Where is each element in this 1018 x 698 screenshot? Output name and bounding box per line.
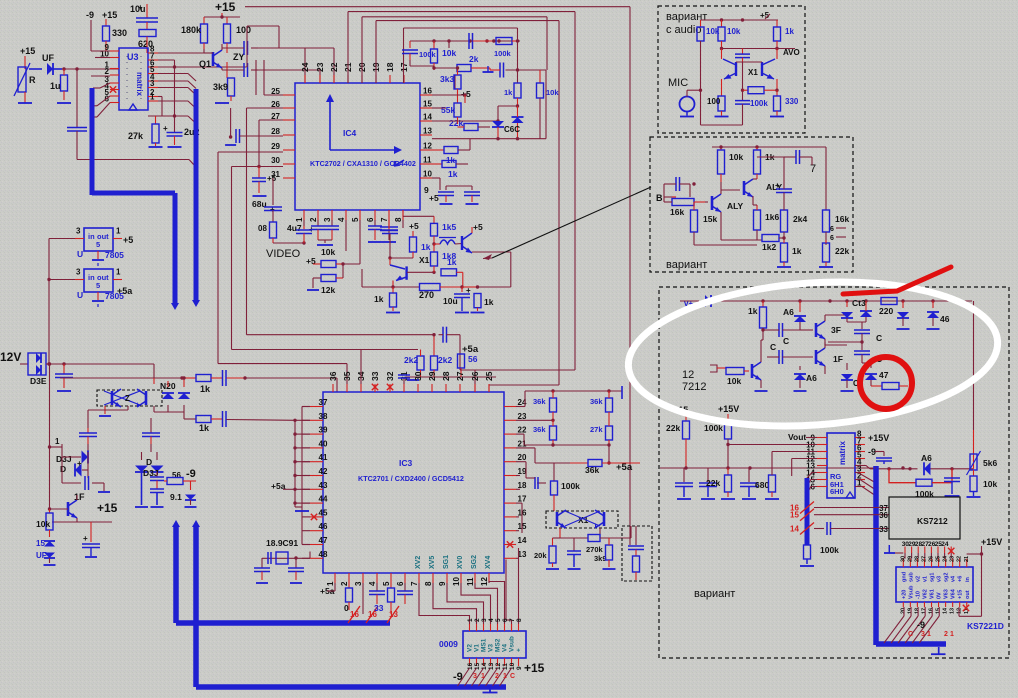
svg-text:7: 7 (810, 163, 816, 175)
svg-text:1u: 1u (50, 81, 61, 91)
svg-text:25: 25 (936, 556, 942, 562)
svg-text:33: 33 (370, 371, 380, 381)
svg-text:5: 5 (382, 581, 391, 586)
svg-text:Vout: Vout (788, 432, 806, 442)
svg-text:1: 1 (927, 631, 931, 638)
svg-text:XV2: XV2 (415, 556, 422, 569)
svg-text:MS2: MS2 (495, 638, 502, 652)
svg-text:20k: 20k (534, 551, 547, 560)
svg-text:XV5: XV5 (429, 556, 436, 569)
svg-text:+15: +15 (524, 661, 545, 675)
svg-text:1k: 1k (792, 246, 802, 256)
svg-text:3: 3 (76, 227, 81, 236)
svg-text:MIC: MIC (668, 77, 688, 89)
svg-text:1k6: 1k6 (765, 212, 779, 222)
svg-text:вариант: вариант (694, 588, 735, 600)
svg-text:23: 23 (315, 62, 325, 72)
svg-text:23: 23 (518, 412, 527, 421)
svg-text:47: 47 (319, 536, 328, 545)
svg-text:2: 2 (309, 217, 318, 222)
svg-text:23: 23 (950, 556, 956, 562)
svg-text:10k: 10k (729, 152, 743, 162)
svg-text:KS7221D: KS7221D (967, 621, 1004, 631)
svg-text:36k: 36k (585, 465, 599, 475)
svg-text:41: 41 (319, 453, 328, 462)
svg-text:D3E: D3E (30, 376, 47, 386)
svg-text:1F: 1F (74, 492, 85, 502)
svg-text:10k: 10k (321, 247, 335, 257)
svg-text:вариант: вариант (666, 259, 707, 271)
svg-text:08: 08 (258, 224, 267, 233)
svg-text:D: D (60, 464, 66, 474)
svg-text:вариант: вариант (666, 11, 707, 23)
svg-text:24: 24 (943, 555, 949, 562)
svg-text:11: 11 (502, 663, 509, 670)
svg-text:46: 46 (940, 314, 950, 324)
svg-text:XV0: XV0 (457, 556, 464, 569)
svg-text:29: 29 (427, 371, 437, 381)
svg-text:38: 38 (319, 412, 328, 421)
svg-text:22: 22 (329, 62, 339, 72)
svg-text:270k: 270k (586, 545, 604, 554)
svg-text:32: 32 (385, 371, 395, 381)
svg-text:100k: 100k (494, 49, 512, 58)
svg-text:5: 5 (96, 240, 100, 249)
svg-text:100k: 100k (820, 545, 839, 555)
svg-text:9.1: 9.1 (170, 492, 182, 502)
svg-text:10k: 10k (727, 376, 741, 386)
svg-text:21: 21 (964, 556, 970, 562)
svg-text:35: 35 (342, 371, 352, 381)
svg-text:+5: +5 (429, 193, 439, 203)
svg-text:-9: -9 (917, 620, 925, 630)
svg-text:10k: 10k (36, 519, 50, 529)
svg-text:16: 16 (423, 87, 432, 96)
svg-text:8: 8 (394, 217, 403, 222)
svg-text:V2: V2 (467, 644, 474, 652)
svg-text:+5: +5 (123, 235, 133, 245)
svg-text:1k: 1k (421, 242, 431, 252)
svg-text:V61: V61 (930, 589, 936, 599)
svg-text:7: 7 (509, 618, 516, 622)
svg-text:1: 1 (481, 673, 485, 680)
svg-text:C: C (908, 631, 913, 638)
svg-text:33: 33 (374, 603, 384, 613)
svg-text:15: 15 (423, 100, 432, 109)
svg-text:45: 45 (319, 508, 328, 517)
svg-text:40: 40 (319, 439, 328, 448)
svg-text:+15V: +15V (868, 433, 889, 443)
svg-text:3: 3 (76, 268, 81, 277)
svg-text:28: 28 (441, 371, 451, 381)
svg-text:10: 10 (423, 170, 432, 179)
svg-text:A6: A6 (921, 453, 932, 463)
svg-text:KTC2701 / CXD2400 / GCD5412: KTC2701 / CXD2400 / GCD5412 (358, 474, 464, 483)
svg-text:30: 30 (413, 371, 423, 381)
svg-text:IC4: IC4 (343, 128, 357, 138)
svg-text:220: 220 (879, 306, 893, 316)
svg-text:22: 22 (518, 426, 527, 435)
svg-text:15: 15 (790, 511, 799, 520)
svg-text:22k: 22k (666, 423, 680, 433)
svg-text:5k6: 5k6 (983, 458, 997, 468)
svg-text:MS1: MS1 (481, 638, 488, 652)
svg-text:26: 26 (271, 100, 280, 109)
svg-text:+20: +20 (901, 590, 907, 599)
svg-text:5: 5 (96, 281, 100, 290)
svg-text:12: 12 (495, 662, 502, 670)
svg-text:7805: 7805 (105, 250, 124, 260)
svg-text:6H0: 6H0 (830, 487, 844, 496)
svg-text:27: 27 (455, 371, 465, 381)
svg-text:6: 6 (366, 217, 375, 222)
svg-text:15: 15 (36, 539, 45, 548)
svg-text:56: 56 (172, 471, 181, 480)
svg-text:sg2: sg2 (944, 573, 950, 582)
svg-text:33: 33 (879, 525, 888, 534)
svg-text:1: 1 (116, 227, 121, 236)
svg-text:v1: v1 (922, 576, 928, 582)
svg-text:IC3: IC3 (399, 458, 413, 468)
svg-text:R: R (29, 75, 36, 85)
svg-text:10k: 10k (442, 48, 456, 58)
svg-text:36k: 36k (590, 397, 603, 406)
svg-text:Vsub: Vsub (509, 636, 516, 652)
svg-text:A6: A6 (783, 307, 794, 317)
svg-text:5: 5 (495, 618, 502, 622)
svg-text:+: + (516, 648, 523, 652)
svg-text:4: 4 (368, 581, 377, 586)
svg-text:5: 5 (351, 217, 360, 222)
svg-text:15: 15 (474, 662, 481, 670)
svg-text:V62: V62 (922, 589, 928, 599)
svg-text:C: C (510, 673, 515, 680)
svg-text:UF: UF (42, 53, 54, 63)
svg-text:+: + (83, 534, 88, 543)
svg-text:18: 18 (385, 62, 395, 72)
svg-text:+15: +15 (97, 501, 118, 515)
svg-text:16: 16 (929, 608, 935, 614)
svg-text:-9: -9 (868, 447, 876, 457)
svg-text:+5: +5 (267, 174, 277, 183)
svg-text:30: 30 (271, 156, 280, 165)
svg-text:16k: 16k (670, 207, 684, 217)
svg-text:18.9C91: 18.9C91 (266, 538, 298, 548)
svg-text:0V: 0V (937, 592, 943, 599)
svg-text:14: 14 (423, 113, 432, 122)
svg-text:2k2: 2k2 (438, 355, 452, 365)
svg-text:out: out (965, 590, 971, 599)
svg-text:9: 9 (516, 666, 523, 670)
svg-text:48: 48 (319, 550, 328, 559)
svg-text:14: 14 (518, 536, 527, 545)
svg-text:+15V: +15V (981, 537, 1002, 547)
svg-text:29: 29 (907, 556, 913, 562)
svg-text:1k: 1k (374, 294, 384, 304)
svg-text:3k9: 3k9 (594, 554, 607, 563)
svg-text:3k3: 3k3 (440, 74, 454, 84)
svg-text:4: 4 (488, 618, 495, 622)
svg-text:Q1: Q1 (199, 59, 211, 69)
svg-text:3: 3 (921, 631, 925, 638)
svg-text:13: 13 (950, 608, 956, 614)
svg-text:in: in (88, 232, 95, 241)
svg-text:180k: 180k (181, 25, 202, 35)
svg-text:43: 43 (319, 481, 328, 490)
svg-text:KS7212: KS7212 (917, 516, 948, 526)
svg-text:6: 6 (830, 226, 834, 233)
svg-text:100: 100 (707, 97, 721, 106)
svg-text:7212: 7212 (682, 381, 706, 393)
svg-text:ZY: ZY (233, 52, 245, 62)
svg-text:1: 1 (503, 673, 507, 680)
svg-text:330: 330 (112, 28, 127, 38)
svg-text:-10: -10 (915, 591, 921, 599)
svg-text:44: 44 (319, 495, 328, 504)
svg-text:12k: 12k (321, 285, 335, 295)
svg-text:26: 26 (470, 371, 480, 381)
svg-text:14: 14 (481, 662, 488, 670)
svg-text:1k2: 1k2 (762, 242, 776, 252)
svg-text:+: + (77, 459, 82, 468)
svg-text:-9: -9 (186, 468, 196, 480)
svg-text:15k: 15k (703, 214, 717, 224)
svg-text:3F: 3F (831, 325, 841, 335)
svg-text:matrix: matrix (838, 440, 847, 465)
svg-text:7: 7 (410, 581, 419, 586)
svg-text:39: 39 (319, 426, 328, 435)
svg-text:47: 47 (879, 370, 889, 380)
svg-text:10k: 10k (727, 27, 741, 36)
svg-text:1k: 1k (199, 423, 210, 433)
svg-text:27: 27 (271, 112, 280, 121)
svg-text:12: 12 (423, 142, 432, 151)
svg-text:in: in (965, 576, 971, 582)
svg-text:C6C: C6C (504, 125, 520, 134)
svg-text:1: 1 (295, 217, 304, 222)
svg-text:-9: -9 (453, 671, 463, 683)
svg-text:3: 3 (473, 673, 477, 680)
svg-text:10: 10 (509, 662, 516, 670)
svg-text:20: 20 (900, 608, 906, 614)
svg-text:27k: 27k (128, 131, 144, 141)
svg-text:+15: +15 (215, 0, 236, 14)
svg-text:1k: 1k (448, 169, 458, 179)
svg-text:C: C (783, 336, 789, 346)
svg-text:UF: UF (36, 551, 47, 560)
svg-text:2: 2 (340, 581, 349, 586)
svg-text:10: 10 (452, 577, 461, 586)
svg-text:14: 14 (943, 607, 949, 614)
svg-text:18: 18 (518, 481, 527, 490)
svg-text:v2: v2 (915, 576, 921, 582)
svg-text:19: 19 (907, 608, 913, 614)
svg-text:29: 29 (271, 142, 280, 151)
svg-text:330: 330 (785, 97, 799, 106)
svg-text:16k: 16k (835, 214, 849, 224)
svg-text:13: 13 (389, 610, 398, 619)
svg-text:11: 11 (423, 156, 432, 165)
svg-text:Vsub: Vsub (908, 585, 914, 599)
svg-text:8: 8 (424, 581, 433, 586)
svg-text:0009: 0009 (439, 639, 458, 649)
svg-text:-9: -9 (86, 10, 94, 20)
svg-text:C: C (770, 342, 776, 352)
svg-text:25: 25 (484, 371, 494, 381)
svg-text:2: 2 (944, 631, 948, 638)
svg-text:15: 15 (936, 608, 942, 614)
svg-text:+5: +5 (409, 221, 419, 231)
svg-text:В: В (656, 193, 663, 203)
svg-text:10u: 10u (130, 4, 146, 14)
svg-text:1: 1 (55, 437, 60, 446)
svg-text:10k: 10k (546, 88, 559, 97)
svg-text:+15: +15 (958, 590, 964, 599)
svg-text:27: 27 (921, 556, 927, 562)
svg-text:VIDEO: VIDEO (266, 248, 301, 260)
svg-text:55k: 55k (441, 105, 455, 115)
svg-text:8: 8 (516, 618, 523, 622)
svg-text:C: C (876, 333, 882, 343)
svg-text:12V: 12V (0, 350, 21, 364)
svg-text:22: 22 (957, 556, 963, 562)
svg-text:100k: 100k (561, 481, 580, 491)
svg-text:SG2: SG2 (471, 555, 478, 569)
svg-text:+6: +6 (958, 576, 964, 582)
svg-text:680: 680 (755, 480, 769, 490)
svg-text:0: 0 (344, 603, 349, 613)
svg-text:10k: 10k (983, 479, 997, 489)
svg-text:U: U (77, 290, 83, 300)
svg-text:36: 36 (879, 511, 888, 520)
svg-text:sub: sub (908, 572, 914, 582)
svg-text:V4: V4 (502, 644, 509, 652)
svg-text:3: 3 (323, 217, 332, 222)
svg-text:KTC2702 / CXA1310 / GCD4402: KTC2702 / CXA1310 / GCD4402 (310, 159, 416, 168)
svg-text:2k2: 2k2 (404, 355, 418, 365)
svg-text:in: in (88, 273, 95, 282)
svg-text:6: 6 (502, 618, 509, 622)
svg-text:+: + (163, 124, 168, 133)
svg-text:X1: X1 (419, 255, 430, 265)
svg-text:4: 4 (337, 217, 346, 222)
svg-text:1: 1 (950, 631, 954, 638)
svg-text:Z: Z (125, 394, 130, 403)
svg-text:D3J: D3J (56, 454, 72, 464)
svg-text:17: 17 (921, 608, 927, 614)
svg-text:7: 7 (380, 217, 389, 222)
svg-text:16: 16 (467, 662, 474, 670)
svg-text:3: 3 (354, 581, 363, 586)
svg-text:1k: 1k (785, 27, 794, 36)
svg-text:36k: 36k (533, 397, 546, 406)
svg-text:22k: 22k (706, 478, 720, 488)
svg-text:XV4: XV4 (485, 556, 492, 569)
svg-text:U: U (77, 249, 83, 259)
svg-text:gnd: gnd (901, 572, 907, 582)
svg-text:13: 13 (488, 662, 495, 670)
svg-text:1k: 1k (484, 297, 494, 307)
svg-text:22k: 22k (835, 246, 849, 256)
svg-text:13: 13 (423, 127, 432, 136)
svg-text:12: 12 (480, 577, 489, 586)
svg-text:16: 16 (350, 610, 359, 619)
svg-text:V3: V3 (488, 644, 495, 652)
svg-text:100k: 100k (419, 50, 437, 59)
svg-text:v3: v3 (937, 576, 943, 582)
svg-text:+15: +15 (20, 46, 35, 56)
svg-text:1k: 1k (748, 306, 758, 316)
svg-text:30: 30 (900, 556, 906, 562)
svg-text:6: 6 (830, 235, 834, 242)
svg-text:1F: 1F (833, 354, 843, 364)
svg-text:2: 2 (474, 618, 481, 622)
svg-text:6: 6 (396, 581, 405, 586)
svg-text:Ct3: Ct3 (852, 298, 866, 308)
svg-text:17: 17 (518, 495, 527, 504)
svg-text:12: 12 (682, 369, 694, 381)
svg-text:2k4: 2k4 (793, 214, 807, 224)
svg-text:270: 270 (419, 290, 434, 300)
svg-text:v4: v4 (951, 575, 957, 582)
svg-text:36: 36 (328, 371, 338, 381)
svg-text:2: 2 (495, 673, 499, 680)
svg-text:V1: V1 (474, 644, 481, 652)
svg-text:100k: 100k (750, 99, 768, 108)
svg-text:28: 28 (914, 556, 920, 562)
svg-text:X1: X1 (748, 68, 758, 77)
svg-text:с audio: с audio (666, 24, 701, 36)
svg-text:matrix: matrix (135, 72, 144, 97)
svg-text:V63: V63 (944, 589, 950, 599)
svg-text:46: 46 (319, 522, 328, 531)
svg-text:18: 18 (914, 608, 920, 614)
svg-text:V64: V64 (951, 588, 957, 599)
svg-text:24: 24 (300, 62, 310, 72)
svg-text:36k: 36k (533, 425, 546, 434)
svg-text:U3: U3 (127, 52, 139, 62)
svg-text:4u7: 4u7 (287, 223, 302, 233)
svg-text:28: 28 (271, 127, 280, 136)
svg-text:11: 11 (466, 577, 475, 586)
svg-text:1k: 1k (504, 88, 513, 97)
svg-text:1k5: 1k5 (442, 222, 456, 232)
svg-text:+5a: +5a (616, 462, 633, 473)
svg-text:3: 3 (150, 79, 155, 88)
svg-text:SG1: SG1 (443, 555, 450, 569)
svg-text:26: 26 (929, 556, 935, 562)
svg-text:sg1: sg1 (930, 573, 936, 582)
svg-text:+15: +15 (102, 10, 117, 20)
svg-text:37: 37 (319, 398, 328, 407)
svg-text:3k9: 3k9 (213, 82, 228, 92)
svg-text:14: 14 (790, 525, 799, 534)
svg-text:D: D (146, 457, 152, 467)
svg-text:20: 20 (518, 453, 527, 462)
svg-text:1k: 1k (447, 257, 457, 267)
svg-text:27k: 27k (590, 425, 603, 434)
svg-text:1: 1 (150, 93, 155, 102)
svg-text:2k: 2k (469, 54, 479, 64)
svg-text:+15V: +15V (718, 404, 739, 414)
svg-text:42: 42 (319, 467, 328, 476)
svg-text:1: 1 (116, 268, 121, 277)
svg-text:+5: +5 (473, 222, 483, 232)
svg-text:21: 21 (518, 439, 527, 448)
svg-text:9: 9 (438, 581, 447, 586)
svg-text:AVO: AVO (783, 48, 800, 57)
svg-text:1k: 1k (200, 384, 211, 394)
